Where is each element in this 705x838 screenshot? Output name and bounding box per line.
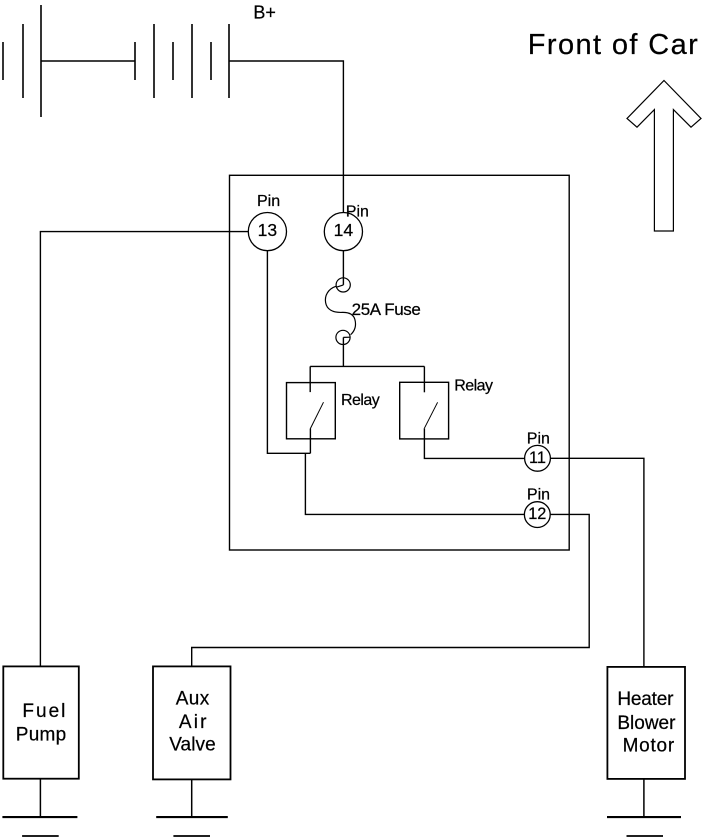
svg-text:14: 14 (334, 220, 354, 240)
battery B1 plate 1 (short) (2, 42, 4, 80)
svg-text:11: 11 (529, 449, 546, 467)
svg-text:Motor: Motor (623, 735, 675, 756)
wire heater blower motor to ground (643, 779, 645, 817)
battery B2 plate 4 (long) (191, 24, 193, 98)
relay K2 switch blade (424, 402, 437, 428)
battery B2 plate 6 (long) (228, 24, 230, 98)
svg-text:Pump: Pump (16, 724, 66, 745)
wire battery interconnect (41, 60, 135, 62)
wire B+ feed to pin 14 (229, 61, 343, 212)
ground aux air valve line 2 (173, 835, 210, 837)
svg-text:Pin: Pin (527, 486, 550, 503)
battery B2 plate 1 (short) (134, 42, 136, 80)
ground heater blower motor line 2 (627, 835, 664, 837)
svg-text:12: 12 (528, 505, 546, 523)
relay K1 switch blade (310, 402, 323, 428)
ground aux air valve line 1 (156, 816, 228, 818)
relay K1 box (287, 383, 336, 439)
fuel pump box (3, 666, 79, 778)
battery B2 plate 3 (short) (172, 42, 174, 80)
battery B2 plate 2 (long) (153, 24, 155, 98)
wire pin 12 to aux air valve (192, 514, 590, 666)
wire fuse bottom to relay feed (342, 337, 344, 366)
wire pin 13 to fuel pump (40, 232, 248, 667)
heater blower motor box (607, 667, 685, 779)
svg-text:Relay: Relay (454, 377, 493, 394)
wire junction to pin 12 (305, 453, 524, 514)
ground fuel pump line 1 (2, 816, 77, 818)
aux air valve box (153, 666, 231, 779)
wire fuel pump to ground (39, 779, 41, 817)
svg-text:Fuel: Fuel (22, 701, 65, 722)
svg-text:25A Fuse: 25A Fuse (352, 300, 421, 319)
battery B1 plate 2 (long) (22, 24, 24, 98)
relay K2 top contact (423, 366, 425, 392)
ground fuel pump line 2 (22, 835, 59, 837)
svg-text:Valve: Valve (169, 735, 216, 756)
svg-text:Blower: Blower (617, 713, 676, 734)
svg-text:B+: B+ (253, 2, 276, 22)
battery B2 plate 5 (short) (210, 42, 212, 80)
relay/fuse box outline (230, 175, 570, 550)
svg-text:13: 13 (258, 220, 277, 240)
wire fuse top (342, 251, 344, 285)
pin 13 circle (248, 213, 286, 251)
fuse F1 S-curve element (325, 286, 355, 335)
svg-text:Air: Air (179, 712, 207, 733)
relay K2 box (400, 382, 449, 439)
svg-text:Pin: Pin (346, 203, 369, 220)
svg-text:Front of Car: Front of Car (528, 29, 698, 61)
front-of-car direction arrow (627, 81, 701, 232)
fuse F1 bottom terminal circle (336, 330, 350, 344)
wire relay feed distribution (310, 365, 424, 367)
svg-text:Pin: Pin (257, 193, 280, 210)
fuse F1 bottom hook (343, 336, 350, 338)
svg-text:Pin: Pin (527, 431, 550, 448)
battery B1 plate 3 (tall) (40, 5, 42, 117)
fuse F1 top hook (336, 285, 343, 287)
svg-text:Heater: Heater (617, 689, 674, 710)
relay K1 bottom contact (309, 429, 311, 454)
wire pin 11 to heater blower motor (551, 458, 644, 667)
fuse F1 top terminal circle (336, 278, 350, 292)
relay K2 bottom contact to pin 11 (424, 428, 524, 458)
pin 12 circle (524, 502, 550, 528)
wire pin 13 bottom to relay 1 (267, 251, 310, 453)
pin 11 circle (525, 445, 551, 471)
svg-text:Aux: Aux (176, 688, 210, 709)
ground heater blower motor line 1 (607, 816, 681, 818)
svg-text:Relay: Relay (341, 392, 380, 409)
relay K1 top contact (309, 366, 311, 392)
pin 14 circle (324, 213, 362, 251)
wire aux air valve to ground (191, 779, 193, 817)
